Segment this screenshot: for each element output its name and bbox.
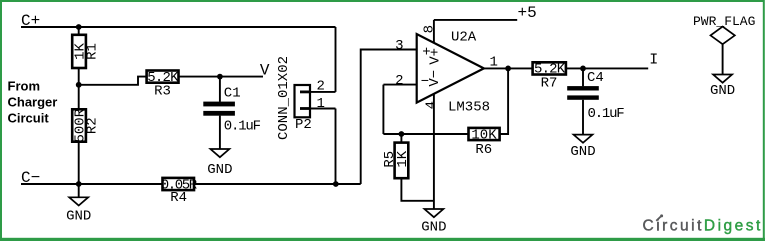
wire C4 top lead	[582, 68, 584, 86]
junction feedback node	[399, 131, 405, 137]
wire C4 bottom to ground	[582, 100, 584, 135]
wire R7 to I label	[566, 67, 648, 69]
capacitor C4	[567, 70, 624, 122]
svg-text:CircuitDigest: CircuitDigest	[643, 218, 763, 235]
wire C+ horizontal	[21, 26, 336, 28]
svg-text:C4: C4	[587, 70, 604, 86]
resistor R3	[147, 70, 180, 100]
resistor R1	[72, 35, 100, 68]
svg-text:CONN_01X02: CONN_01X02	[276, 56, 292, 140]
resistor R7	[533, 62, 566, 92]
svg-text:From: From	[8, 78, 41, 93]
svg-text:+5: +5	[518, 4, 537, 22]
svg-text:10K: 10K	[471, 127, 497, 143]
junction node A	[76, 82, 82, 88]
wire R1 bottom to node A	[78, 67, 80, 85]
svg-text:U2A: U2A	[451, 30, 477, 46]
wire C- node to ground	[78, 184, 80, 197]
wire op-amp pin 4 to ground	[433, 94, 435, 209]
junction V node / C1	[217, 74, 223, 80]
svg-text:GND: GND	[421, 219, 446, 235]
resistor R4	[161, 177, 198, 206]
wire feedback node to R5 top	[400, 134, 402, 143]
svg-text:C−: C−	[21, 169, 40, 187]
wire pin 1 output to R7	[484, 67, 533, 69]
svg-text:R5: R5	[382, 151, 398, 168]
svg-text:3: 3	[395, 38, 403, 54]
wire node A to R3	[79, 77, 147, 85]
ground below C1	[207, 149, 232, 178]
junction output node	[505, 66, 511, 72]
wire R5 bottom to ground run	[401, 178, 434, 201]
svg-text:V: V	[260, 62, 270, 80]
svg-text:V+: V+	[428, 48, 444, 65]
svg-text:I: I	[649, 51, 658, 68]
wire C- horizontal left	[21, 183, 163, 185]
op-amp U2A	[395, 25, 498, 115]
svg-text:GND: GND	[710, 83, 735, 99]
svg-text:GND: GND	[207, 162, 232, 178]
svg-text:0.1uF: 0.1uF	[588, 106, 625, 122]
wire R3 to V label	[179, 76, 264, 78]
svg-text:0.1uF: 0.1uF	[224, 118, 261, 134]
wire pin 2 of op-amp	[383, 84, 416, 86]
wire V node to C1 top	[219, 77, 221, 102]
svg-text:R2: R2	[85, 117, 101, 134]
svg-text:C1: C1	[224, 85, 241, 101]
svg-text:1: 1	[490, 54, 498, 70]
svg-text:R4: R4	[170, 190, 187, 206]
svg-text:R3: R3	[154, 84, 171, 100]
junction C4 node	[580, 66, 586, 72]
svg-text:2: 2	[317, 79, 325, 95]
svg-text:GND: GND	[570, 144, 595, 160]
wire C+ to R1 top	[78, 27, 80, 36]
ground below op-amp pin 4	[421, 209, 446, 235]
svg-text:R6: R6	[475, 142, 492, 158]
junction node B	[333, 181, 339, 187]
svg-text:GND: GND	[66, 208, 91, 224]
svg-text:R1: R1	[85, 43, 101, 60]
svg-text:Circuit: Circuit	[8, 111, 50, 126]
wire P2 pin 2 stub	[310, 91, 336, 93]
wire C1 bottom to ground	[219, 116, 221, 149]
annotation From Charger Circuit	[8, 78, 58, 125]
svg-text:LM358: LM358	[448, 99, 490, 115]
wire PWR_FLAG to ground	[722, 44, 724, 74]
wire +5 horizontal	[434, 19, 517, 21]
wire output node down to R6 right	[500, 68, 509, 134]
wire node A to R2 top	[78, 85, 80, 110]
junction C+ / R1	[76, 24, 82, 30]
svg-text:C+: C+	[21, 12, 40, 30]
wire R2 bottom to C- line	[78, 142, 80, 185]
ground below C4	[570, 135, 595, 160]
svg-text:P2: P2	[295, 117, 312, 133]
wire pin 2 down to feedback node	[382, 85, 384, 134]
wire C+ down to P2 pin 2	[335, 27, 337, 92]
resistor R6	[469, 127, 500, 158]
junction C- / R2	[76, 181, 82, 187]
svg-text:Charger: Charger	[8, 95, 58, 110]
connector P2	[276, 56, 325, 140]
capacitor C1	[203, 85, 260, 134]
resistor R5	[382, 143, 411, 179]
svg-text:8: 8	[422, 25, 438, 33]
CircuitDigest logo	[643, 214, 763, 234]
wire feedback node to R6	[383, 133, 468, 135]
svg-text:R7: R7	[541, 76, 558, 92]
resistor R2	[72, 108, 100, 142]
wire node B up to pin 3	[361, 50, 417, 185]
ground below C- node	[66, 197, 91, 224]
svg-text:1: 1	[317, 96, 325, 112]
svg-text:PWR_FLAG: PWR_FLAG	[693, 14, 755, 29]
svg-text:V−: V−	[427, 70, 443, 87]
wire R4 to node B	[194, 183, 361, 185]
wire op-amp pin 8 up	[433, 20, 435, 43]
wire P2 pin 1 stub	[310, 108, 336, 110]
wire P2 pin 1 down to node B	[335, 109, 337, 185]
svg-text:2: 2	[395, 73, 403, 89]
ground below PWR_FLAG	[710, 75, 735, 100]
power flag PWR1	[693, 14, 755, 44]
svg-text:4: 4	[424, 101, 440, 109]
